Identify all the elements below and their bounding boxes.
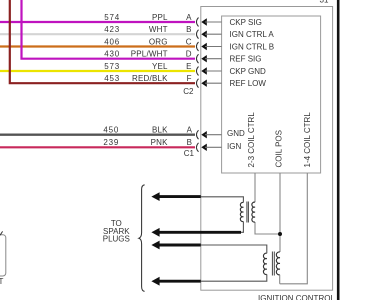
svg-text:RED/BLK: RED/BLK	[132, 74, 168, 83]
svg-text:31: 31	[320, 0, 329, 5]
left edge tick mark	[0, 231, 3, 235]
wire T2 secondary top lead to spark arrow 3	[201, 245, 267, 253]
wire T2 secondary bottom lead to spark arrow 4	[201, 274, 267, 281]
svg-text:GND: GND	[227, 129, 245, 138]
svg-text:B: B	[186, 25, 191, 34]
spark plug arrow 1	[151, 192, 200, 201]
svg-text:PPL: PPL	[152, 13, 168, 22]
wire 239 PNK row B horizontal	[0, 146, 195, 148]
wire 406 ORG row C horizontal	[0, 45, 195, 47]
module pin arrows C1 side	[201, 131, 221, 151]
ignition coil T1 primary winding	[252, 202, 255, 222]
svg-text:ORG: ORG	[149, 38, 168, 47]
brace for spark plug arrows	[139, 185, 145, 292]
svg-text:REF SIG: REF SIG	[230, 55, 262, 64]
module pin arrows C2 side	[201, 18, 221, 87]
svg-text:450: 450	[103, 126, 119, 135]
svg-text:2-3 COIL CTRL: 2-3 COIL CTRL	[247, 112, 256, 168]
svg-text:C1: C1	[184, 149, 195, 158]
wire 573 YEL row E horizontal	[0, 70, 195, 72]
svg-text:IGN CTRL B: IGN CTRL B	[230, 42, 275, 51]
spark plug arrow 2	[151, 228, 241, 237]
junction dot node	[278, 232, 282, 236]
svg-text:D: D	[186, 50, 192, 59]
wire 450 BLK row A horizontal	[0, 133, 195, 135]
svg-text:PPL/WHT: PPL/WHT	[131, 50, 168, 59]
svg-text:IGNITION CONTROL: IGNITION CONTROL	[258, 294, 335, 300]
svg-text:A: A	[186, 13, 192, 22]
svg-text:574: 574	[104, 13, 120, 22]
svg-text:A: A	[187, 125, 193, 134]
svg-text:IGN: IGN	[227, 142, 241, 151]
wire T2 primary bottom lead	[279, 275, 281, 284]
wire T1 secondary top lead to spark arrow 1	[201, 197, 244, 203]
wire 423 WHT row B horizontal	[0, 33, 195, 35]
ignition coil T2 core	[271, 252, 273, 276]
svg-text:F: F	[187, 74, 192, 83]
svg-text:PLUGS: PLUGS	[103, 235, 130, 244]
ignition coil T1 secondary winding	[240, 202, 243, 221]
wire 1-4 coil ctrl vertical + bottom jog	[280, 173, 308, 284]
wire T1 primary bottom to junction	[255, 222, 278, 234]
wire 574 PPL row A horizontal	[0, 21, 195, 23]
svg-text:C2: C2	[183, 87, 194, 96]
svg-text:239: 239	[103, 138, 119, 147]
svg-text:COIL POS: COIL POS	[274, 130, 283, 168]
page border line right	[337, 0, 340, 300]
svg-text:BLK: BLK	[152, 126, 168, 135]
svg-text:430: 430	[104, 50, 120, 59]
wire 453 RED/BLK vertical + row F horizontal	[10, 0, 195, 83]
partial component box at left edge	[0, 235, 6, 276]
svg-text:YEL: YEL	[152, 62, 168, 71]
ignition control module outer box	[201, 7, 333, 291]
svg-text:406: 406	[104, 38, 120, 47]
svg-text:C: C	[186, 37, 192, 46]
svg-text:T: T	[0, 277, 4, 286]
svg-text:B: B	[187, 138, 192, 147]
svg-text:PNK: PNK	[151, 138, 169, 147]
wire coil pos vertical	[279, 173, 281, 252]
svg-text:1-4 COIL CTRL: 1-4 COIL CTRL	[303, 112, 312, 168]
wire T1 secondary bottom lead to spark arrow 2	[240, 222, 243, 233]
svg-text:REF LOW: REF LOW	[230, 79, 267, 88]
connector C2 socket arcs	[196, 18, 198, 88]
svg-text:423: 423	[104, 25, 120, 34]
wire 2-3 coil ctrl vertical	[254, 173, 256, 202]
ignition coil T1 core	[246, 202, 248, 223]
svg-text:WHT: WHT	[149, 25, 168, 34]
svg-text:CKP GND: CKP GND	[230, 67, 267, 76]
ignition coil T2 primary winding	[276, 252, 280, 275]
spark plug arrow 3	[151, 241, 200, 250]
svg-text:E: E	[186, 62, 191, 71]
ignition coil T2 secondary winding	[263, 253, 266, 274]
svg-text:IGN CTRL A: IGN CTRL A	[230, 30, 275, 39]
svg-text:CKP SIG: CKP SIG	[230, 18, 262, 27]
connector C1 socket arcs	[196, 130, 198, 152]
wire 430 PPL/WHT vertical + row D horizontal	[22, 0, 196, 59]
module inner box	[222, 16, 321, 173]
svg-text:573: 573	[104, 62, 120, 71]
spark plug arrow 4	[151, 277, 200, 286]
svg-text:453: 453	[104, 74, 120, 83]
